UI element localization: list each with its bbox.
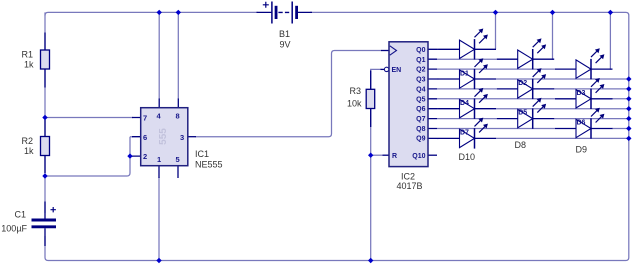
LED D1 (439, 29, 497, 78)
node: top rail D1 bus junction (493, 10, 498, 15)
svg-text:Q0: Q0 (416, 47, 425, 54)
wire: D6 cathode to right rail (612, 98, 629, 100)
555 body (141, 108, 188, 166)
clock triangle (390, 46, 397, 55)
svg-text:1k: 1k (24, 60, 34, 70)
svg-text:Q10: Q10 (412, 153, 425, 160)
op-amp/IC U1: 555 timer IC1 (132, 99, 223, 179)
svg-text:R2: R2 (21, 136, 33, 146)
svg-text:4017B: 4017B (397, 181, 423, 191)
svg-text:Q7: Q7 (416, 116, 425, 123)
wire: Q6 feed joint to D7 anode lead (437, 108, 439, 110)
svg-text:IC1: IC1 (195, 149, 209, 159)
svg-text:Q4: Q4 (416, 86, 425, 93)
LED D4 (439, 58, 497, 107)
node: bottom rail pin1 junction (156, 258, 161, 263)
svg-text:Q1: Q1 (416, 57, 425, 64)
wire: Q4 to D5 anode (437, 88, 497, 90)
svg-text:EN: EN (392, 67, 402, 74)
capacitor C1 (1, 202, 56, 247)
wire: top rail from top-left corner to battery left lead (45, 12, 258, 15)
node: 555 pin2/pin6 junction (127, 153, 132, 158)
LED D9 (555, 108, 613, 155)
wire: node B right then up to 555 pin2/pin6 junction (45, 156, 130, 176)
svg-text:IC2: IC2 (401, 172, 415, 182)
svg-text:R3: R3 (349, 86, 361, 96)
LED D3 (555, 48, 613, 97)
wire: left rail R1 top lead from corner (44, 12, 46, 52)
svg-text:D8: D8 (515, 140, 527, 150)
wire: Q7 to D8 anode (437, 118, 497, 120)
LED D10 (439, 118, 497, 162)
wire: node C down to bottom rail (370, 155, 372, 260)
node: top rail pin4 junction (157, 10, 162, 15)
node: right rail D6 junction (626, 96, 631, 101)
wire: D10 cathode to right rail (496, 137, 629, 139)
wire: 555 pin6 to pin2 vertical link (130, 137, 133, 156)
svg-text:100µF: 100µF (1, 224, 27, 234)
svg-text:Q5: Q5 (416, 96, 425, 103)
wire: R1 bottom to node A junction (44, 68, 46, 118)
svg-text:555: 555 (158, 128, 169, 145)
node: top rail D3 bus junction (608, 10, 613, 15)
wire: Q1 to D2 anode (437, 58, 497, 60)
svg-text:1: 1 (157, 155, 161, 164)
wire: Q9 feed joint to D10 anode lead (437, 137, 439, 139)
svg-text:R: R (392, 153, 397, 160)
IC2 4017 pin stubs: clock, EN, R, Q0..Q9, Q10 (383, 154, 390, 156)
node A: R1/R2/pin7 junction (42, 115, 47, 120)
wire: D2 cathode bus up to top rail (552, 12, 555, 59)
svg-text:B1: B1 (279, 29, 290, 39)
node: right rail D9 junction (626, 126, 631, 131)
wire: D9 cathode to right rail (612, 128, 629, 130)
IC1 555 pin stubs (132, 118, 141, 157)
LED D2 (497, 38, 555, 87)
svg-text:2: 2 (143, 152, 147, 161)
wire: R3 top lead to 4017 EN (371, 69, 382, 90)
wire: R3 bottom to node C junction (370, 107, 372, 155)
node B: R2/C1/pin2 wire junction (42, 173, 47, 178)
wire: Q2 to D3 anode (437, 68, 555, 70)
svg-text:R1: R1 (21, 50, 33, 60)
node: top rail pin8 junction (176, 10, 181, 15)
wire: D5 cathode to right rail (554, 88, 629, 90)
IC U2: 4017B decade counter IC2 (381, 42, 438, 191)
wire: D4 cathode to right rail (496, 78, 629, 80)
svg-text:D10: D10 (459, 152, 476, 162)
node: right rail D4 junction (626, 76, 631, 81)
svg-text:3: 3 (180, 133, 184, 142)
wire: bottom rail (ground) from bottom-right corner to bottom-left corner up to C1 bottom (45, 236, 620, 261)
svg-text:Q8: Q8 (416, 126, 425, 133)
svg-text:NE555: NE555 (195, 160, 223, 170)
wire: Q5 to D6 anode (437, 98, 555, 100)
EN bubble (384, 67, 388, 71)
node: right rail D8 junction (626, 116, 631, 121)
LED D5 (497, 68, 555, 117)
4017 body (389, 42, 428, 167)
node: right rail D5 junction (626, 86, 631, 91)
LED D7 (439, 88, 497, 136)
wire: node A down to R2 top (44, 118, 46, 139)
node: right rail D7 junction (626, 106, 631, 111)
resistor R2 (21, 120, 49, 174)
LED D8 (497, 98, 555, 150)
node: bottom rail R3 junction (368, 258, 373, 263)
node: top rail D2 bus junction (550, 10, 555, 15)
svg-text:Q3: Q3 (416, 77, 425, 84)
svg-text:Q9: Q9 (416, 136, 425, 143)
svg-text:5: 5 (176, 155, 180, 164)
wire: top rail from battery right lead to top-right corner (310, 12, 629, 18)
resistor R3 (347, 71, 375, 128)
wire: node B down to C1 top (44, 176, 46, 213)
wire: node C to 4017 R pin (371, 154, 383, 156)
svg-text:9V: 9V (280, 40, 291, 50)
wire: top rail to 555 pin 4 (158, 12, 160, 99)
node: right rail D10 junction (626, 136, 631, 141)
LED D6 (555, 78, 613, 127)
svg-text:8: 8 (176, 112, 180, 121)
wire: D1 cathode bus up to top rail (495, 12, 498, 49)
wire: 555 pin 3 to 4017 clock (196, 51, 382, 137)
wire: 555 pin 1 to bottom rail (158, 177, 160, 261)
wire: R2 bottom to node B junction (44, 155, 46, 176)
svg-text:1k: 1k (24, 146, 34, 156)
wire: node A to 555 pin 7 (45, 117, 133, 119)
svg-text:D9: D9 (576, 145, 588, 155)
wire: top rail to 555 pin 8 (177, 12, 179, 99)
node C: R3/R pin junction (368, 153, 373, 158)
wire: Q3 feed joint to D4 anode lead (437, 78, 439, 80)
wire: D3 cathode bus up to top rail (610, 12, 611, 69)
battery B1 (257, 2, 313, 50)
svg-text:10k: 10k (347, 99, 362, 109)
wire: Q8 to D9 anode (437, 128, 555, 130)
wire: D7 cathode to right rail (496, 108, 629, 110)
svg-text:7: 7 (143, 114, 147, 123)
resistor R1 (21, 33, 49, 88)
wire: right rail (negative) from top-right corner to bottom-right corner (620, 18, 629, 261)
svg-text:6: 6 (143, 133, 147, 142)
svg-text:C1: C1 (14, 210, 26, 220)
svg-text:Q2: Q2 (416, 67, 425, 74)
wire: D8 cathode to right rail (554, 118, 629, 120)
svg-text:Q6: Q6 (416, 106, 425, 113)
